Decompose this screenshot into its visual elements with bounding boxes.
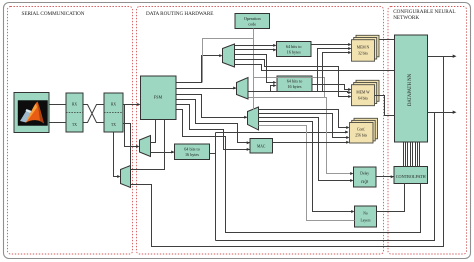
wire Operation code branch left bbox=[203, 39, 254, 83]
svg-text:MAC: MAC bbox=[257, 145, 266, 149]
wire converter1 to MEM N bbox=[312, 43, 352, 46]
wire demux D2 out to converter2 (jog up) bbox=[249, 84, 277, 92]
svg-text:SERIAL COMMUNICATION: SERIAL COMMUNICATION bbox=[22, 11, 85, 17]
converter block: 64 bits to 16 bytes (lower left) bbox=[175, 144, 210, 160]
memory stack MEM W 64 bits bbox=[352, 80, 380, 105]
svg-text:Delay: Delay bbox=[360, 172, 369, 176]
svg-text:64 bits to: 64 bits to bbox=[287, 79, 303, 84]
DATAPATH NN block bbox=[395, 35, 428, 142]
wire branch to mux M1 input bbox=[125, 105, 140, 149]
wire converter3 out up and right to Conf memory, down to bottom rail 2 bbox=[210, 113, 435, 241]
wire demux D3 out1 to Conf in1 bbox=[259, 110, 350, 130]
wire demux D1 out4 to MEM W bbox=[235, 60, 352, 99]
wire DATAPATH output 2 arrow bbox=[428, 111, 457, 114]
wire demux D1 out3 down to converter2 bbox=[235, 55, 277, 85]
wire MAC out to Conf in4 bbox=[273, 141, 350, 144]
svg-text:16 bytes: 16 bytes bbox=[185, 152, 199, 157]
wire FSM out1 to demux D1 bbox=[177, 54, 223, 82]
wire No Layers out up to CONTROLPATH bbox=[377, 184, 405, 212]
wire demux D1 out2 to converter1 bbox=[235, 48, 277, 51]
svg-text:Conf.: Conf. bbox=[357, 128, 365, 132]
svg-text:Operation: Operation bbox=[244, 16, 262, 21]
wire demux D3 out5 to No Layers in2 bbox=[259, 126, 355, 221]
svg-text:code: code bbox=[248, 22, 256, 27]
bus hatch DATAPATH to CONTROLPATH bbox=[404, 143, 420, 167]
svg-text:16 bytes: 16 bytes bbox=[287, 50, 301, 55]
demux D2 bbox=[237, 78, 249, 100]
FSM block bbox=[141, 76, 177, 120]
svg-text:TX: TX bbox=[111, 123, 116, 127]
svg-text:No: No bbox=[363, 212, 368, 216]
svg-text:DATA ROUTING HARDWARE: DATA ROUTING HARDWARE bbox=[146, 11, 213, 17]
demux D3 bbox=[248, 107, 259, 130]
memory stack Conf. 256 bits bbox=[350, 118, 378, 143]
svg-text:RX: RX bbox=[111, 103, 116, 107]
svg-text:MEM W: MEM W bbox=[356, 91, 370, 95]
svg-text:MEM N: MEM N bbox=[357, 46, 370, 50]
MATLAB PC block U_PC bbox=[14, 93, 49, 133]
svg-text:CONTROLPATH: CONTROLPATH bbox=[396, 174, 426, 179]
section box: SERIAL COMMUNICATION bbox=[8, 7, 133, 255]
wire converter2 to MEM W bbox=[313, 85, 352, 92]
Operation code block bbox=[235, 14, 270, 29]
wire mux M1 to converter 3 bbox=[151, 151, 175, 154]
wire demux D3 out4 to No Layers in1 bbox=[259, 122, 355, 214]
section box: DATA ROUTING HARDWARE bbox=[137, 7, 384, 255]
memory stack MEM N 32 bits bbox=[352, 35, 380, 61]
wire PC to UART1 TX bbox=[50, 122, 67, 124]
MAC block bbox=[250, 139, 273, 154]
svg-text:32 bits: 32 bits bbox=[358, 52, 369, 56]
svg-text:Layers: Layers bbox=[360, 219, 371, 223]
wire demux D1 out5 long to DATAPATH bbox=[235, 65, 395, 71]
wire demux D1 out1 to converter1 bbox=[235, 44, 277, 47]
wire demux D2 out4 down to Delay in2 bbox=[249, 98, 354, 176]
svg-text:64 bits to: 64 bits to bbox=[184, 147, 200, 152]
svg-text:NETWORK: NETWORK bbox=[393, 15, 419, 21]
svg-text:FSM: FSM bbox=[154, 95, 163, 100]
wire FSM out5 to MAC in2 bbox=[177, 105, 251, 151]
wire FSM out4 to MAC in1 bbox=[177, 100, 251, 145]
wire DATAPATH output 1 arrow bbox=[428, 55, 457, 58]
UART block 2 (RX/TX) bbox=[104, 93, 123, 132]
svg-text:16 bytes: 16 bytes bbox=[287, 84, 301, 89]
wire mux M2 out, bottom rail 3, up to DATAPATH output line bbox=[131, 57, 444, 247]
wire demux D3 out2 to Conf in3 bbox=[259, 114, 350, 140]
wire MEM N to DATAPATH bbox=[380, 39, 395, 41]
wire mux M2 up to FSM bbox=[131, 120, 165, 170]
wire PC to UART1 RX bbox=[50, 104, 67, 106]
wire FSM out6 down to bottom rail 1 and up to CONTROLPATH bbox=[177, 110, 421, 233]
wire FSM out2 to demux D2 bbox=[177, 87, 237, 90]
svg-text:TX: TX bbox=[72, 123, 77, 127]
demux D1 bbox=[223, 44, 235, 67]
wire UART2 RX to FSM bbox=[124, 103, 141, 106]
wire demux D2 out3 up to MEM N in1 bbox=[249, 47, 352, 94]
wire Operation code down to demux D3 select bbox=[253, 29, 255, 110]
wire UART2 TX down to mux M2 input bbox=[114, 133, 121, 179]
svg-text:64 bits to: 64 bits to bbox=[286, 44, 302, 49]
Delay n/p block bbox=[354, 167, 377, 187]
wire MEM W to DATAPATH bbox=[375, 96, 395, 116]
wire mux M1 up to FSM bbox=[151, 120, 156, 143]
wire crossover UART1-UART2 bbox=[84, 105, 105, 123]
svg-text:n/p: n/p bbox=[361, 179, 368, 185]
UART block 1 (RX/TX) bbox=[66, 93, 83, 132]
wire UART2 TX right branch down to mux M2 top bbox=[124, 124, 131, 166]
section box: CONFIGURABLE NEURAL NETWORK bbox=[388, 7, 467, 255]
svg-text:64 bits: 64 bits bbox=[358, 97, 369, 101]
No Layers block bbox=[355, 206, 377, 227]
mux M2 bbox=[121, 166, 131, 188]
wire Delay to CONTROLPATH bbox=[377, 175, 395, 178]
svg-text:DATAPATH NN: DATAPATH NN bbox=[408, 73, 413, 106]
wire select line gray to bus bbox=[254, 78, 325, 98]
wire FSM out3 to demux D3 bbox=[177, 95, 248, 119]
mux M1 bbox=[140, 136, 151, 157]
svg-text:256 bits: 256 bits bbox=[355, 134, 367, 138]
svg-text:RX: RX bbox=[72, 103, 77, 107]
CONTROLPATH block bbox=[394, 167, 428, 184]
converter block: 64 bits to 16 bytes (middle) bbox=[277, 76, 312, 92]
converter block: 64 bits to 16 bytes (top) bbox=[277, 42, 312, 57]
wire demux D3 out3 to Delay in1 bbox=[259, 118, 354, 183]
